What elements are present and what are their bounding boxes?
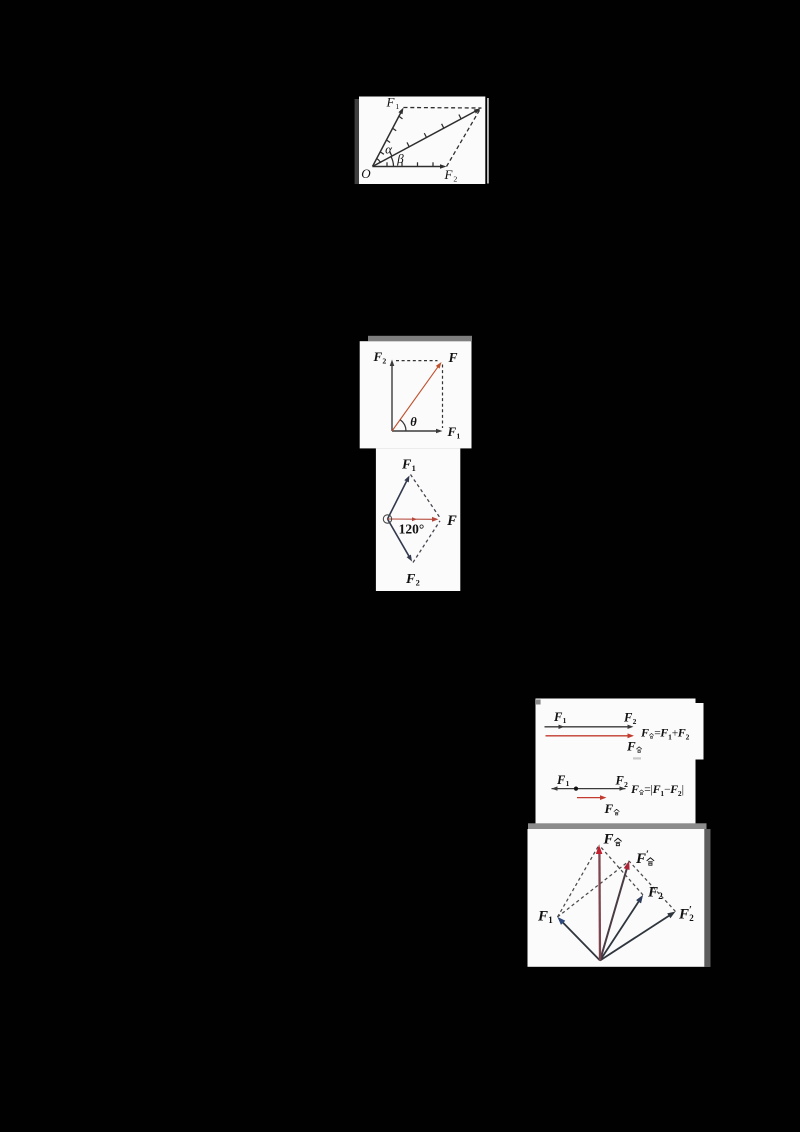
- svg-text:2: 2: [658, 891, 663, 901]
- svg-text:F: F: [615, 774, 625, 788]
- svg-text:1: 1: [563, 716, 567, 725]
- svg-text:F: F: [401, 458, 412, 473]
- svg-text:F: F: [604, 801, 614, 816]
- svg-text:2: 2: [686, 733, 690, 742]
- svg-text:F: F: [447, 350, 457, 365]
- svg-text:2: 2: [453, 174, 457, 183]
- svg-text:1: 1: [456, 431, 460, 440]
- svg-text:F: F: [626, 739, 636, 754]
- svg-text:F: F: [373, 349, 383, 364]
- svg-text:F: F: [647, 885, 658, 901]
- svg-text:F: F: [640, 726, 649, 740]
- svg-text:2: 2: [416, 579, 420, 588]
- svg-text:F: F: [677, 726, 686, 740]
- svg-text:F: F: [447, 424, 457, 439]
- svg-text:2: 2: [624, 780, 628, 789]
- svg-text:F: F: [444, 167, 454, 182]
- svg-text:F: F: [652, 782, 661, 796]
- svg-text:1: 1: [566, 779, 570, 788]
- svg-text:|: |: [682, 782, 684, 796]
- svg-text:2: 2: [689, 913, 694, 923]
- svg-text:F: F: [553, 710, 563, 724]
- svg-text:O: O: [361, 166, 371, 181]
- svg-text:F: F: [556, 773, 566, 787]
- svg-text:F: F: [446, 513, 457, 529]
- svg-text:1: 1: [548, 915, 553, 925]
- svg-text:F: F: [623, 711, 633, 725]
- svg-text:F: F: [635, 851, 646, 867]
- svg-text:F: F: [537, 909, 548, 925]
- svg-text:F: F: [659, 726, 668, 740]
- svg-text:F: F: [405, 572, 416, 587]
- svg-text:F: F: [678, 907, 689, 923]
- svg-text:F: F: [603, 832, 614, 848]
- svg-text:β: β: [396, 151, 404, 166]
- svg-text:θ: θ: [410, 415, 417, 429]
- svg-text:F: F: [669, 782, 678, 796]
- svg-text:120°: 120°: [399, 522, 425, 537]
- svg-text:2: 2: [382, 356, 386, 365]
- svg-text:1: 1: [395, 102, 399, 111]
- svg-text:1: 1: [412, 464, 416, 473]
- svg-text:2: 2: [633, 717, 637, 726]
- svg-text:α: α: [385, 142, 393, 157]
- svg-text:F: F: [630, 782, 639, 796]
- svg-text:F: F: [386, 95, 396, 110]
